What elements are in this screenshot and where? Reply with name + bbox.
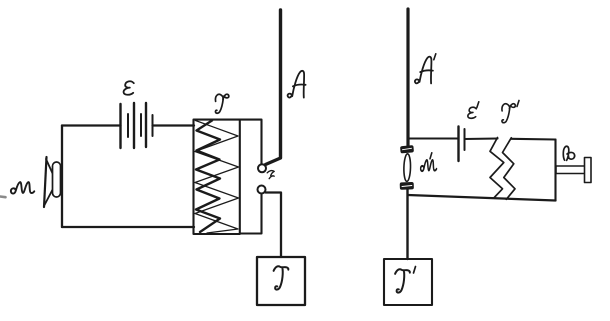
battery E (3 cells) [121,103,153,148]
resistor J': right zigzag [503,138,516,200]
wire: left circuit bottom horizontal [62,226,194,228]
coherer M': glass tube [404,154,411,182]
label T' (script, in box) [395,269,410,292]
wire: coil top to upper contact [240,120,262,165]
stray mark at left edge [0,195,6,198]
earth box T' [384,259,432,305]
label T (script, in box) [274,266,289,289]
coherer M': top plug [400,146,413,153]
receiver B: end bar [585,158,592,183]
label J' (script) [502,104,515,123]
wire: right vertical edge [554,140,556,201]
wire: left circuit left vertical [61,126,63,228]
induction coil: thin zigzag winding [195,121,239,234]
resistor J': left zigzag [490,138,504,199]
antenna A' wire [406,9,409,147]
wire: coherer down to earth box T' [406,190,408,260]
label epsilon (E) [124,81,134,95]
label A' prime [434,54,436,60]
label T' prime [414,267,416,274]
label epsilon' prime [477,102,479,108]
label A (script) [288,71,306,98]
squiggle label at contact [267,171,274,179]
antenna A wire [266,10,281,165]
induction coil: outer rectangle [194,120,240,234]
wire: top branch from antenna to battery [408,137,459,139]
induction coil: bold zigzag winding [196,121,220,233]
coherer M': bottom plug [400,182,413,189]
label M' (script) [421,160,437,171]
label M' prime [430,153,432,159]
microphone M: upper cone line [46,159,56,181]
receiver B: stem [556,166,585,174]
microphone M: lower cone line [45,183,57,205]
label epsilon' [468,107,476,118]
wire: lower contact down to coil bottom [240,194,262,234]
wire: left circuit top, before battery [62,124,121,126]
wire: resistor top to right edge [511,138,555,141]
label T (script, coil) [215,94,228,113]
microphone M: diaphragm line [44,157,47,207]
wire: left circuit top, after battery [153,124,195,126]
wire: bottom branch [408,195,556,201]
label M (script) [11,182,34,193]
battery E': long plate [457,127,459,162]
label J' prime [517,101,519,107]
upper contact circle [258,164,266,172]
label A' (script) [415,57,433,84]
lower contact circle [258,186,266,194]
wire: lower contact right and down to earth box T [266,193,282,258]
earth box T [257,257,305,305]
microphone M: carbon button capsule [53,162,61,197]
wire: battery to resistor J' [465,137,498,140]
label B (script) [563,146,574,160]
battery E': short plate [464,129,466,150]
